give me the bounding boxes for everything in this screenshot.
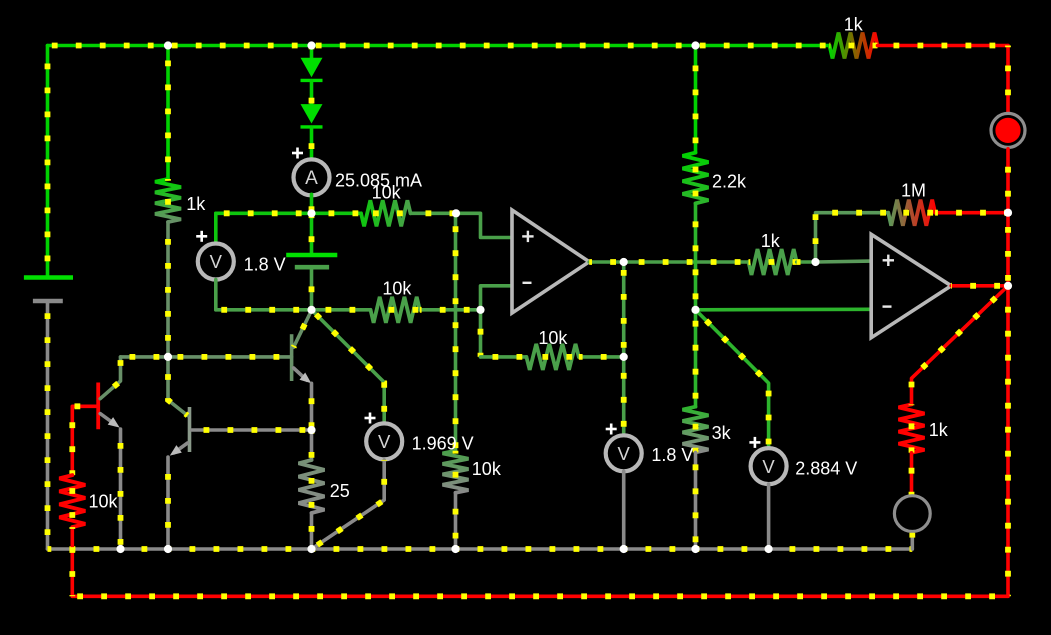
svg-text:1.8 V: 1.8 V: [651, 445, 693, 465]
svg-text:1M: 1M: [901, 180, 926, 200]
svg-text:2.884 V: 2.884 V: [795, 459, 857, 479]
svg-text:10k: 10k: [382, 278, 412, 298]
svg-text:V: V: [378, 431, 391, 452]
svg-text:10k: 10k: [472, 459, 502, 479]
svg-text:10k: 10k: [372, 183, 402, 203]
svg-text:1k: 1k: [186, 194, 206, 214]
svg-text:A: A: [305, 168, 318, 189]
svg-text:10k: 10k: [89, 492, 119, 512]
svg-text:1.969 V: 1.969 V: [412, 433, 474, 453]
svg-text:25: 25: [330, 481, 350, 501]
svg-text:V: V: [210, 251, 223, 272]
svg-text:2.2k: 2.2k: [712, 171, 747, 191]
svg-text:1k: 1k: [761, 231, 781, 251]
svg-text:3k: 3k: [712, 423, 732, 443]
svg-text:10k: 10k: [538, 328, 568, 348]
svg-text:V: V: [762, 456, 775, 477]
svg-text:1k: 1k: [929, 420, 949, 440]
svg-text:V: V: [618, 443, 631, 464]
svg-text:1k: 1k: [844, 14, 864, 34]
svg-text:1.8 V: 1.8 V: [244, 254, 286, 274]
